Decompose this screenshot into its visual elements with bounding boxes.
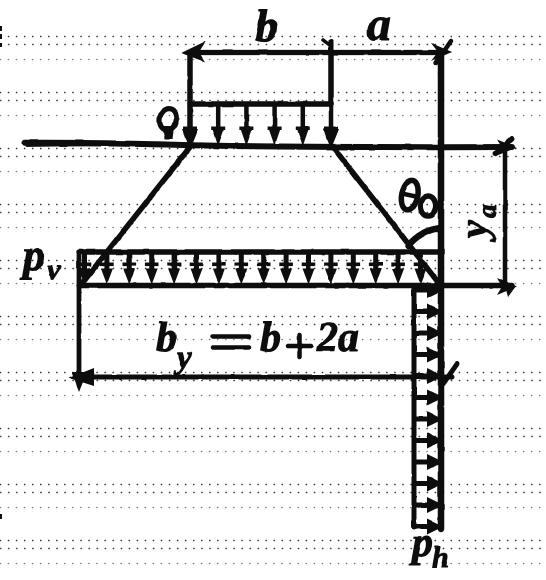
- svg-text:a: a: [367, 0, 391, 51]
- svg-text:p: p: [19, 231, 45, 280]
- svg-text:v: v: [47, 253, 61, 286]
- svg-text:b: b: [255, 0, 278, 51]
- svg-text:y: y: [451, 220, 496, 242]
- svg-text:h: h: [432, 541, 449, 574]
- svg-text:b: b: [260, 315, 281, 361]
- svg-text:a: a: [472, 205, 502, 219]
- svg-text:b: b: [156, 315, 177, 361]
- svg-text:p: p: [409, 520, 433, 566]
- svg-text:2a: 2a: [316, 315, 359, 361]
